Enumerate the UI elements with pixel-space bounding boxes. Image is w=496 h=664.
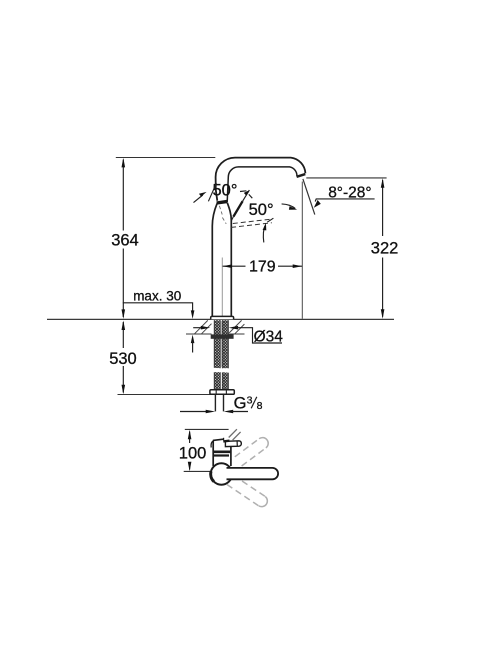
dimension 530: [122, 322, 124, 393]
svg-text:322: 322: [371, 240, 399, 258]
dimension 179: [223, 265, 303, 267]
dia 34 right arrow + leader: [229, 326, 239, 330]
dashed mid-position lever: [233, 219, 272, 223]
hidden dashed lines inside body: [219, 206, 222, 215]
cartridge body mask: [212, 439, 231, 466]
svg-text:530: 530: [109, 350, 137, 368]
max30 lower arrow: [191, 335, 195, 344]
leader under 8-28: [315, 199, 374, 202]
body centerline gray: [221, 258, 223, 317]
deck bottom lines: [186, 333, 245, 335]
arc remnant left of open-lever arrow: [240, 190, 246, 193]
svg-text:364: 364: [111, 231, 139, 249]
svg-text:179: 179: [249, 259, 276, 276]
supply pipe walls: [215, 394, 223, 411]
spout tip outlet face: [297, 174, 306, 177]
lever bar (plan): [225, 441, 241, 447]
ghost spout lower (dashed): [218, 469, 267, 506]
shank centerline: [220, 321, 222, 367]
dimension 100: bottom extension: [184, 470, 211, 472]
dimension 100: top extension: [185, 428, 229, 430]
svg-text:8: 8: [257, 400, 263, 412]
arrowhead on open-lever line: [244, 190, 250, 196]
svg-text:G: G: [234, 395, 247, 413]
slash tick on closed-lever extension: [208, 183, 216, 201]
mid rings: [214, 450, 231, 453]
dimension 322: top extension: [306, 177, 386, 179]
shank break gap: [213, 368, 231, 373]
rotation arrow under dashed lever: [263, 226, 265, 243]
body right edge: [227, 203, 231, 318]
dimension 322: vertical line: [382, 180, 384, 317]
arc + arrow from second 50 deg to spout line: [282, 204, 296, 209]
dimension 364: vertical line: [122, 160, 124, 318]
closed lever (thick edge-on): [217, 201, 228, 203]
deck top line: [47, 318, 394, 320]
dimension 100: vertical line: [189, 432, 191, 470]
G 3/8 dimension arrows: [180, 411, 208, 413]
cartridge body (plan): [213, 441, 231, 467]
base flange: [211, 316, 234, 319]
spout outer contour (riser + top pipe + right bend): [216, 158, 306, 201]
vertical extension from spout tip: [301, 182, 303, 319]
deck hatching right: [229, 320, 244, 333]
swivel body circle: [211, 463, 232, 484]
svg-text:max. 30: max. 30: [133, 288, 181, 303]
spout inner contour: [227, 167, 297, 202]
open lever at 50 deg: [231, 217, 234, 222]
tick at dashed lever tip: [267, 218, 273, 222]
dark detail on lever root: [223, 440, 229, 443]
max30 underline + drop: [123, 303, 193, 311]
body left edge: [212, 203, 217, 317]
dia 34 left arrow: [193, 327, 202, 329]
svg-text:Ø34: Ø34: [254, 329, 284, 346]
left bump: [211, 441, 213, 447]
deck hatching left: [195, 320, 212, 333]
threaded shank (upper): [214, 320, 220, 368]
main spout arm (plan): [227, 468, 279, 479]
ghost spout upper (dashed): [218, 438, 268, 479]
hose-end extension line: [118, 394, 211, 396]
ghost raised lever lines: [229, 429, 241, 440]
top cap: [213, 439, 223, 440]
tick past open lever: [249, 194, 253, 198]
dimension 364: top extension line: [116, 157, 216, 159]
jet angle line 8-28 deg: [303, 179, 315, 215]
end nut: [210, 390, 234, 395]
svg-text:100: 100: [179, 444, 207, 462]
svg-text:50°: 50°: [249, 201, 274, 219]
threaded shank (lower, after break): [214, 372, 220, 389]
svg-text:3: 3: [247, 394, 253, 406]
leader arrow left of 50 deg: [194, 195, 203, 203]
washer / backnut: [211, 334, 234, 338]
